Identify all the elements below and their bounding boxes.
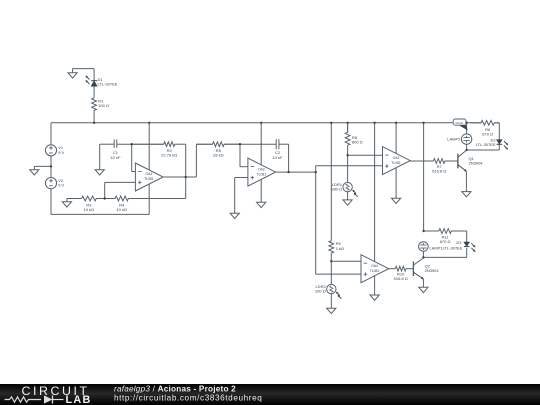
wire OA4 V- pin to ground (374, 275, 376, 292)
ground G6 OA2 V- (260, 199, 262, 202)
wire minus node down to OA1 inverting input (131, 144, 133, 171)
resistor R2 22.76k feedback (132, 143, 164, 145)
wire Q1 emitter to ground (465, 171, 467, 188)
svg-text:516.8 Ω: 516.8 Ω (394, 276, 408, 281)
resistor R8 800 (347, 123, 349, 133)
resistor R3 10k (67, 198, 82, 200)
wire LDR2 to ground (330, 294, 332, 305)
svg-text:9 V: 9 V (58, 150, 64, 155)
wire C1 right to OA1 minus node (117, 143, 164, 145)
svg-text:280 Ω: 280 Ω (331, 187, 342, 192)
resistor R5 28k (196, 143, 212, 145)
svg-text:100 Ω: 100 Ω (315, 289, 326, 294)
svg-text:LTL-307EE: LTL-307EE (443, 245, 463, 250)
svg-text:TL081: TL081 (257, 172, 267, 176)
lamp LAMP1 (419, 242, 429, 252)
svg-text:670 Ω: 670 Ω (440, 239, 451, 244)
wire rail to R9 (330, 123, 332, 241)
wire OA3 V+ pin from rail (395, 123, 397, 155)
transistor Q1 2N3904 (457, 154, 459, 169)
svg-text:LTL-307EE: LTL-307EE (98, 82, 118, 87)
svg-text:D3: D3 (456, 240, 462, 245)
wire OA2 V- pin to ground (260, 178, 262, 199)
wire OA2 output branch vertical (315, 166, 317, 274)
svg-text:1 kΩ: 1 kΩ (336, 246, 344, 251)
ground G2 left of sources (33, 166, 35, 169)
wire LAMP1 to bottom node (422, 252, 424, 258)
ground G5 OA2 plus input (234, 210, 236, 213)
ground G1 top-left (72, 69, 74, 73)
wire Q2 emitter to ground (422, 279, 424, 284)
wire R11 D3 branch (424, 230, 439, 232)
op-amp OA3 TL081 (383, 147, 411, 175)
ground G8 below LDR2 (330, 305, 332, 308)
lamp LAMP2 (461, 134, 471, 144)
wire C1 left to ground (100, 143, 115, 145)
svg-text:100 Ω: 100 Ω (98, 103, 109, 108)
svg-text:10 kΩ: 10 kΩ (116, 207, 127, 212)
svg-text:OA3: OA3 (393, 156, 400, 160)
resistor R6 670 (470, 122, 481, 124)
ground G9 OA3 V- (395, 195, 397, 198)
svg-text:10 nF: 10 nF (272, 155, 283, 160)
wire OA2 plus input to ground (235, 177, 248, 179)
ground G10 OA4 V- (374, 292, 376, 295)
wire top rail +9V (51, 122, 481, 124)
wire collector node to D2 (467, 149, 500, 151)
wire OA2 output to OA4 plus input (316, 273, 361, 275)
wire OA2 V+ pin from rail (260, 123, 262, 166)
svg-text:OA1: OA1 (146, 172, 153, 176)
wire OA1 plus input from divider (105, 181, 136, 183)
svg-text:http://circuitlab.com/c3836tde: http://circuitlab.com/c3836tdeuhreq (114, 393, 262, 402)
svg-text:Motor1: Motor1 (456, 121, 465, 125)
footer bar (0, 384, 540, 405)
wire R5 to OA2 inverting node (224, 143, 276, 145)
wire ground to D1 top (73, 68, 95, 70)
svg-text:TL081: TL081 (144, 177, 154, 181)
wire rail to V1 (50, 123, 52, 145)
LED D2 LTL-307EE (497, 140, 503, 144)
wire OA4 V+ pin from rail (374, 123, 376, 263)
svg-text:LAMP2: LAMP2 (447, 137, 461, 142)
junction dots (93, 122, 95, 124)
svg-text:22.76 kΩ: 22.76 kΩ (161, 153, 177, 158)
wire OA2 output row (276, 171, 316, 173)
svg-text:rafaelgp3 / Acionas - Projeto: rafaelgp3 / Acionas - Projeto 2 (114, 384, 236, 393)
logo resistor-diode glyph (5, 397, 42, 402)
photoresistor LDR2 100 (327, 284, 336, 293)
svg-text:TL081: TL081 (370, 269, 380, 273)
wire OA3 V- pin to ground (395, 166, 397, 195)
svg-text:9 V: 9 V (58, 183, 64, 188)
wire OA3 output to R7 (410, 160, 433, 162)
svg-text:2N3904: 2N3904 (469, 160, 484, 165)
wire rail to R8 (347, 123, 349, 133)
node flag Motor1 (453, 119, 466, 125)
ground G11 Q1 emitter (465, 188, 467, 191)
svg-text:OA2: OA2 (258, 167, 265, 171)
wire rail to LAMP1 branch (423, 123, 425, 231)
ground G12 Q2 emitter (422, 284, 424, 287)
LED D3 LTL-307EE (464, 242, 470, 246)
svg-text:OA4: OA4 (371, 264, 378, 268)
wire V1 to V2 with ground tap (50, 156, 52, 178)
transistor Q2 2N3904 (412, 261, 414, 276)
wire OA2 output to OA3 plus input (316, 165, 383, 167)
svg-text:28 kΩ: 28 kΩ (213, 153, 224, 158)
wire R8 to LDR1 with OA3 minus tap (347, 145, 349, 182)
wire LAMP2 to collector node (466, 144, 468, 150)
op-amp OA2 TL081 (248, 158, 276, 186)
resistor R1 100 (93, 97, 95, 99)
wire R1 to top rail (93, 110, 95, 122)
op-amp OA1 TL081 (135, 163, 163, 191)
wire V2 to bottom rail -9V (50, 189, 52, 215)
svg-text:LAB: LAB (66, 394, 92, 405)
svg-text:670 Ω: 670 Ω (482, 132, 493, 137)
resistor R11 670 (424, 230, 439, 232)
wire rail to LAMP2 (466, 123, 468, 134)
wire R9 to LDR2 with OA4 minus tap (330, 253, 332, 284)
resistor R10 516.8 (389, 268, 396, 270)
op-amp OA4 TL081 (361, 255, 389, 283)
svg-text:TL081: TL081 (391, 161, 401, 165)
LED D1 LTL-307EE (91, 80, 97, 82)
capacitor C2 10nF (275, 139, 277, 149)
svg-text:800 Ω: 800 Ω (352, 140, 363, 145)
ground G7 below LDR1 (347, 197, 349, 200)
voltage source V1 9V (45, 145, 56, 156)
svg-text:LAMP1: LAMP1 (430, 245, 444, 250)
wire D1 to R1 (93, 86, 95, 98)
wire LDR1 to ground (347, 192, 349, 197)
ground G4 left of R3 (66, 199, 68, 202)
capacitor C1 10nF (113, 139, 115, 148)
svg-text:LTL-307EE: LTL-307EE (476, 142, 496, 147)
wire R3 R4 divider row (67, 198, 82, 200)
svg-text:10 nF: 10 nF (110, 155, 121, 160)
photoresistor LDR1 280 (343, 182, 352, 191)
svg-text:10 kΩ: 10 kΩ (84, 207, 95, 212)
wire C2 right to OA2 output (279, 143, 289, 145)
svg-text:516.8 Ω: 516.8 Ω (432, 168, 446, 173)
ground G3 below C1 (99, 166, 101, 169)
wire R2 right to feedback node (185, 144, 187, 198)
voltage source V2 9V (45, 178, 56, 189)
wire R6 to D2 (494, 122, 499, 124)
wire OA1 output row (163, 176, 196, 178)
resistor R9 1k (330, 240, 332, 242)
resistor R7 516.8 (410, 160, 433, 162)
wire OA1 V+ pin from rail (148, 123, 150, 172)
svg-text:2N3904: 2N3904 (425, 268, 440, 273)
resistor R4 10k (105, 198, 115, 200)
